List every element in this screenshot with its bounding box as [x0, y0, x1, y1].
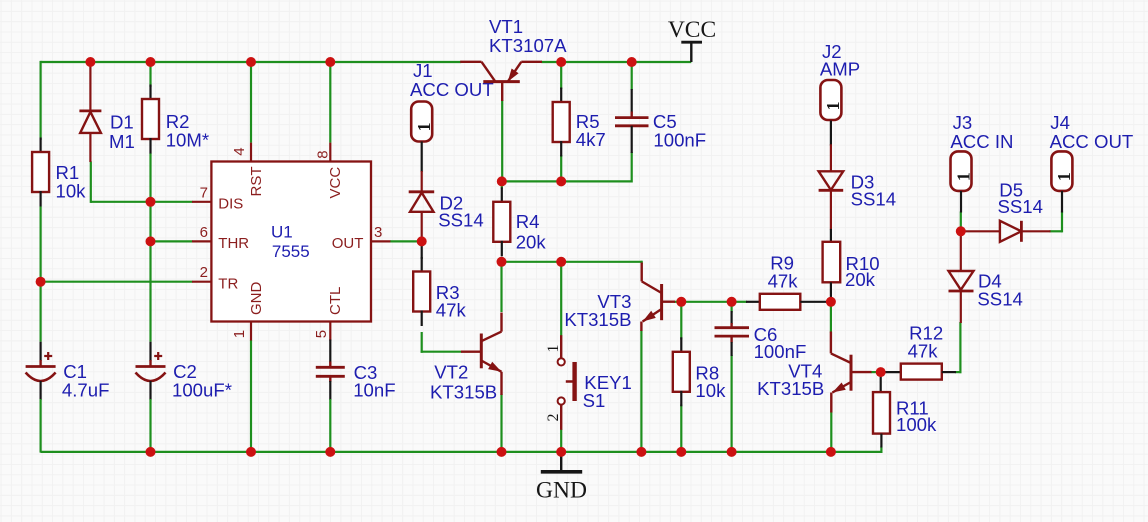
node TR [36, 277, 46, 287]
wire R5 bottom [560, 155, 562, 181]
node J3/D4/D5 [956, 226, 966, 236]
svg-text:20k: 20k [516, 232, 547, 253]
wire U1 pin4 to rail [250, 62, 252, 143]
wire R12 right corner up to D4 [959, 322, 961, 373]
wire R11 bottom corner [880, 447, 882, 454]
svg-text:47k: 47k [908, 340, 939, 361]
node VT1 base/R4 [497, 176, 507, 186]
svg-text:10k: 10k [56, 181, 87, 202]
wire C6 to R9 [732, 301, 747, 303]
svg-text:GND: GND [536, 478, 587, 504]
wire row R4-bottom / KEY1 / VT3 collector [502, 261, 642, 263]
U1 pin 1 GND [231, 282, 265, 341]
wire VT2 emitter to bottom rail [500, 394, 502, 453]
svg-text:KT315B: KT315B [564, 309, 631, 330]
connector J4 ACC OUT [1050, 112, 1134, 213]
svg-text:R4: R4 [516, 211, 540, 232]
svg-text:1: 1 [414, 123, 434, 132]
svg-text:J3: J3 [953, 112, 973, 133]
wire top rail right (VCC net) [541, 61, 691, 63]
svg-text:4k7: 4k7 [576, 129, 606, 150]
node C5/VCC rail [627, 57, 637, 67]
svg-text:2: 2 [200, 264, 208, 281]
wire C5 top [631, 62, 633, 90]
svg-text:VT2: VT2 [434, 361, 468, 382]
power VCC [668, 17, 716, 62]
svg-text:ACC OUT: ACC OUT [1050, 131, 1134, 152]
svg-text:TR: TR [218, 275, 238, 292]
U1 pin 8 VCC [315, 143, 345, 199]
node R5 bottom [556, 176, 566, 186]
svg-text:KT3107A: KT3107A [489, 35, 567, 56]
resistor R2 [142, 85, 209, 154]
U1 pin 6 THR [192, 224, 249, 252]
U1 pin 3 OUT [332, 224, 391, 252]
diode D3 [819, 144, 897, 229]
node VT4 emitter/bottom rail [826, 447, 836, 457]
diode D2 [409, 171, 484, 242]
svg-text:47k: 47k [436, 300, 467, 321]
node THR [146, 236, 156, 246]
svg-text:100uF*: 100uF* [172, 380, 232, 401]
svg-text:GND: GND [248, 282, 265, 316]
wire TR horizontal [41, 281, 193, 283]
svg-text:1: 1 [545, 345, 562, 353]
node C2/bottom rail [146, 447, 156, 457]
capacitor C1 (polarized) [26, 342, 110, 453]
wire VT4 base to node [871, 371, 881, 373]
svg-text:2: 2 [545, 414, 562, 422]
wire U1 pin8 to rail [329, 62, 331, 143]
diode D5 [960, 179, 1051, 242]
svg-text:D1: D1 [110, 111, 134, 132]
wire node row to C6 [681, 301, 731, 303]
node C3/bottom rail [325, 447, 335, 457]
svg-text:8: 8 [315, 150, 332, 158]
node VT3 base/R8 [676, 297, 686, 307]
node R2/top rail [146, 57, 156, 67]
op-amp U1 7555 timer body [211, 162, 371, 322]
svg-text:U1: U1 [271, 222, 293, 241]
U1 pin 2 TR [192, 264, 238, 292]
node R5/VCC rail [556, 57, 566, 67]
svg-text:4.7uF: 4.7uF [62, 380, 110, 401]
wire KEY1 bottom [560, 429, 562, 453]
svg-text:J1: J1 [413, 60, 433, 81]
svg-text:1: 1 [1054, 172, 1074, 181]
node VT3 emitter/bottom rail [636, 447, 646, 457]
node pin8/top rail [325, 57, 335, 67]
svg-text:7: 7 [200, 184, 208, 201]
svg-text:THR: THR [218, 235, 249, 252]
resistor R4 [493, 187, 546, 256]
wire VT2 collector up to R4 node [500, 262, 502, 312]
wire R5 top [560, 62, 562, 89]
svg-text:100k: 100k [896, 414, 937, 435]
resistor R1 [32, 138, 86, 207]
wire VT3 base to node [674, 301, 681, 303]
wire bottom rail [41, 451, 882, 453]
svg-text:SS14: SS14 [998, 196, 1044, 217]
svg-text:7555: 7555 [272, 242, 310, 261]
wire R1 bottom to TR to C1 [39, 207, 41, 342]
wire left column from rail to R1 [39, 61, 41, 140]
svg-text:1: 1 [823, 102, 843, 111]
node C6/R9 [727, 297, 737, 307]
transistor VT4 KT315B (NPN, mirrored) [757, 332, 871, 413]
wire R2 column DIS to C2 [149, 153, 151, 342]
svg-text:CTL: CTL [327, 287, 344, 315]
wire mid row R5/C5 bottom [501, 180, 632, 182]
capacitor C3 [316, 340, 396, 453]
node R8/bottom rail [676, 447, 686, 457]
node U1 GND/bottom rail [246, 447, 256, 457]
svg-text:S1: S1 [583, 390, 606, 411]
svg-text:100nF: 100nF [653, 129, 706, 150]
connector J3 ACC IN [950, 112, 1013, 213]
U1 pin 5 CTL [313, 287, 344, 341]
switch KEY1 S1 (push button) [545, 335, 632, 430]
svg-text:ACC OUT: ACC OUT [410, 79, 494, 100]
diode D4 [949, 231, 1023, 323]
wire DIS horizontal [91, 201, 193, 203]
svg-text:6: 6 [200, 224, 208, 241]
svg-text:OUT: OUT [332, 235, 364, 252]
svg-text:SS14: SS14 [438, 210, 484, 231]
svg-text:3: 3 [374, 224, 382, 241]
wire VT3 collector corner down [641, 261, 643, 264]
wire VT1 base down [501, 100, 503, 181]
svg-text:4: 4 [231, 147, 248, 155]
svg-text:RST: RST [248, 167, 265, 197]
svg-text:AMP: AMP [820, 59, 860, 80]
wire C5 bottom vertical [631, 152, 633, 183]
transistor VT2 KT315B (NPN) [430, 313, 502, 403]
node VT2 emitter/bottom rail [497, 447, 507, 457]
wire OUT junction to R3 [421, 242, 423, 259]
wire J3 to D5/D4 node [960, 212, 962, 232]
transistor VT1 KT3107A (PNP) [460, 16, 567, 101]
capacitor C2 (polarized) [136, 342, 232, 453]
wire C6 bottom to rail [730, 355, 732, 453]
svg-text:VT1: VT1 [489, 16, 523, 37]
node OUT/D2/R3 [417, 236, 427, 246]
node KEY1 top [556, 257, 566, 267]
wire OUT to D2 junction [390, 240, 422, 242]
U1 pin 4 RST [231, 143, 265, 197]
resistor R8 [673, 337, 726, 406]
wire U1 pin1 to bottom rail [250, 340, 252, 453]
svg-text:5: 5 [313, 330, 330, 338]
U1 pin 7 DIS [192, 184, 243, 212]
svg-text:KT315B: KT315B [430, 381, 497, 402]
svg-text:20k: 20k [845, 269, 876, 290]
svg-text:10nF: 10nF [353, 380, 395, 401]
svg-text:ACC IN: ACC IN [950, 131, 1013, 152]
node DIS [146, 197, 156, 207]
diode D1 [79, 62, 134, 162]
svg-text:10M*: 10M* [166, 129, 209, 150]
resistor R9 [746, 253, 831, 310]
ground GND [536, 452, 587, 504]
capacitor C5 [615, 89, 706, 153]
svg-text:M1: M1 [109, 131, 135, 152]
svg-text:47k: 47k [768, 271, 799, 292]
wire C6 top [730, 302, 732, 313]
wire R3 bottom corner to VT2 base [421, 332, 423, 353]
wire VT3 emitter to bottom rail [640, 330, 642, 453]
connector J1 ACC OUT [410, 60, 494, 172]
wire node to R8 [680, 302, 682, 340]
node pin4/top rail [246, 57, 256, 67]
svg-text:1: 1 [231, 330, 248, 338]
svg-text:DIS: DIS [218, 196, 243, 213]
svg-text:VCC: VCC [668, 17, 716, 43]
wire VT4 collector up to R9/R10 node [830, 302, 832, 333]
wire KEY1 top [560, 262, 562, 336]
node C6/bottom rail [727, 447, 737, 457]
wire top rail left (switched VCC net) [41, 61, 462, 63]
svg-text:SS14: SS14 [851, 189, 897, 210]
capacitor C6 [715, 311, 807, 362]
resistor R12 [883, 323, 956, 380]
wire D5 to J4 corner [1050, 230, 1063, 232]
svg-text:10k: 10k [695, 380, 726, 401]
resistor R3 [413, 257, 466, 326]
node VT4 base/R11/R12 [876, 367, 886, 377]
resistor R5 [553, 88, 606, 157]
resistor R10 [823, 229, 880, 302]
wire R8 bottom to rail [680, 405, 682, 453]
node D1/top rail [85, 57, 95, 67]
wire R2 top [149, 62, 151, 87]
wire D1 bottom vertical [90, 161, 92, 203]
wire VT4 emitter to bottom rail [830, 412, 832, 453]
connector J2 AMP [820, 41, 860, 146]
node R9/R10/VT4 collector [826, 297, 836, 307]
node R4/VT2 collector [497, 257, 507, 267]
svg-text:1: 1 [953, 172, 973, 181]
transistor VT3 KT315B (NPN, mirrored) [564, 263, 675, 332]
svg-text:J4: J4 [1050, 112, 1070, 133]
svg-text:SS14: SS14 [977, 289, 1023, 310]
wire THR horizontal [151, 240, 193, 242]
svg-text:KT315B: KT315B [757, 378, 824, 399]
svg-text:VCC: VCC [327, 167, 344, 199]
svg-text:100nF: 100nF [754, 341, 807, 362]
node GND symbol/bottom rail [556, 447, 566, 457]
resistor R11 [873, 372, 937, 447]
